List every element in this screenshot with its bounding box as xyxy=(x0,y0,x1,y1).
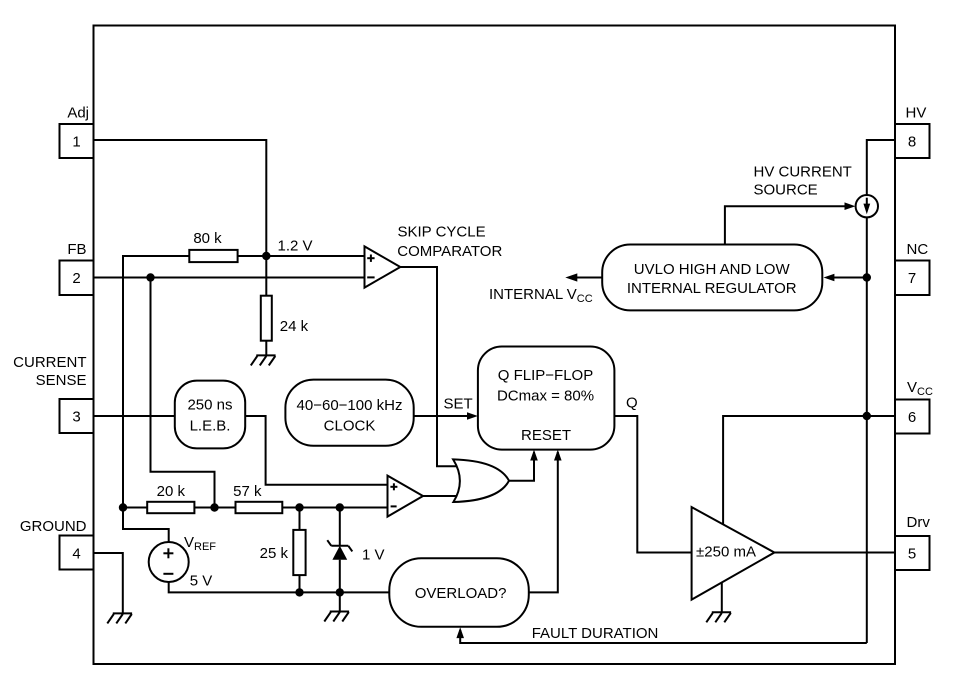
op-amp U2 current sense comparator xyxy=(388,476,424,517)
svg-text:RESET: RESET xyxy=(521,427,571,444)
wire UVLO output INTERNAL VCC arrow xyxy=(489,273,602,305)
resistor R5 25 k xyxy=(260,508,306,593)
wire Q output to driver input xyxy=(614,394,691,552)
svg-text:Adj: Adj xyxy=(67,105,89,122)
svg-text:57 k: 57 k xyxy=(233,483,262,500)
wire SET arrow clock to flip-flop xyxy=(414,396,478,420)
node C junction xyxy=(210,503,218,511)
block 40-60-100 kHz clock xyxy=(285,380,413,446)
ground below zener xyxy=(324,612,349,622)
wire pin 2 FB to skip comparator - input xyxy=(94,277,365,279)
svg-text:8: 8 xyxy=(908,133,916,150)
wire LEB output to comparator U2 + input xyxy=(245,416,387,485)
resistor R3 20 k xyxy=(147,483,194,513)
svg-text:25 k: 25 k xyxy=(260,545,289,562)
svg-text:1 V: 1 V xyxy=(362,546,385,563)
pin 2 FB xyxy=(60,241,94,295)
wire driver output to pin 5 Drv xyxy=(774,552,895,554)
resistor R4 57 k xyxy=(233,483,282,513)
svg-text:CLOCK: CLOCK xyxy=(324,418,376,435)
svg-text:INTERNAL REGULATOR: INTERNAL REGULATOR xyxy=(627,280,797,297)
svg-text:SET: SET xyxy=(444,396,473,413)
ground below 24k xyxy=(251,355,276,365)
svg-text:SOURCE: SOURCE xyxy=(754,182,818,199)
pin 3 CURRENT SENSE xyxy=(13,354,93,433)
svg-text:L.E.B.: L.E.B. xyxy=(190,418,231,435)
svg-text:Q FLIP−FLOP: Q FLIP−FLOP xyxy=(498,367,593,384)
wire UVLO top to current source arrow xyxy=(725,202,856,244)
svg-text:FB: FB xyxy=(67,241,86,258)
zener diode D1 1 V xyxy=(327,508,384,612)
IC outer border xyxy=(94,26,896,665)
wire rail to UVLO input arrow xyxy=(824,274,867,282)
wire pin 6 VCC to driver top xyxy=(723,416,895,525)
svg-text:250 ns: 250 ns xyxy=(187,397,232,414)
svg-text:2: 2 xyxy=(72,270,80,287)
svg-text:20 k: 20 k xyxy=(157,483,186,500)
pin 7 NC xyxy=(895,241,930,295)
wire pin 4 to ground xyxy=(94,553,123,613)
svg-text:40−60−100 kHz: 40−60−100 kHz xyxy=(297,397,403,414)
svg-text:NC: NC xyxy=(907,241,929,258)
node E junction zener top xyxy=(336,503,344,511)
svg-text:Q: Q xyxy=(626,394,638,411)
node A junction xyxy=(262,252,270,260)
OR gate U4 xyxy=(453,459,509,502)
wire U2 output to OR gate input xyxy=(423,495,457,497)
driver amplifier U6 ±250 mA xyxy=(692,507,775,599)
wire pin 3 to LEB block xyxy=(94,415,175,417)
svg-text:24 k: 24 k xyxy=(280,318,309,335)
node F junction 25k bottom xyxy=(295,588,303,596)
wire 57k to comparator U2 - input xyxy=(282,507,387,509)
svg-text:HV: HV xyxy=(906,105,927,122)
svg-text:5 V: 5 V xyxy=(190,572,213,589)
wire node A to skip comparator + input xyxy=(238,255,365,257)
svg-text:80 k: 80 k xyxy=(193,230,222,247)
block U5 UVLO internal regulator xyxy=(602,245,822,311)
resistor R1 80 k xyxy=(189,230,237,262)
svg-text:OVERLOAD?: OVERLOAD? xyxy=(415,585,507,602)
wire node B to 20k xyxy=(123,507,147,509)
node D junction 25k top xyxy=(295,503,303,511)
node H junction rail UVLO xyxy=(863,273,871,281)
svg-text:DCmax = 80%: DCmax = 80% xyxy=(497,387,594,404)
wire driver ground stem xyxy=(721,583,723,613)
block OVERLOAD? xyxy=(389,558,529,627)
block 250 ns L.E.B. xyxy=(175,381,245,449)
wire 80k left lead down to divider node B xyxy=(123,256,189,508)
pin 6 VCC xyxy=(895,379,933,434)
svg-text:GROUND: GROUND xyxy=(20,518,87,535)
svg-text:1: 1 xyxy=(72,133,80,150)
svg-text:FAULT DURATION: FAULT DURATION xyxy=(532,625,659,642)
node G junction zener bottom xyxy=(336,588,344,596)
pin 1 Adj xyxy=(60,105,94,158)
svg-text:7: 7 xyxy=(908,270,916,287)
current source I1 HV CURRENT SOURCE xyxy=(754,163,879,217)
wire pin 1 to node A and down to 24k xyxy=(94,140,267,296)
svg-text:SENSE: SENSE xyxy=(36,372,87,389)
pin 8 HV xyxy=(895,105,930,158)
wire HV rail down right side xyxy=(866,217,868,643)
wire U1 output down to OR gate input xyxy=(400,267,456,466)
wire pin 8 HV to current source xyxy=(867,140,895,195)
svg-text:3: 3 xyxy=(72,408,80,425)
node B junction xyxy=(119,503,127,511)
wire node B down to VREF source xyxy=(123,508,169,543)
wire OVERLOAD output up to RESET arrow xyxy=(529,450,562,593)
svg-text:5: 5 xyxy=(908,545,916,562)
pin 5 Drv xyxy=(895,514,930,570)
wire 20k to 57k xyxy=(194,507,235,509)
resistor R2 24 k xyxy=(261,296,309,341)
ground pin 4 xyxy=(107,613,132,623)
node FB junction xyxy=(146,273,154,281)
svg-text:6: 6 xyxy=(908,409,916,426)
svg-text:1.2 V: 1.2 V xyxy=(278,237,313,254)
svg-text:COMPARATOR: COMPARATOR xyxy=(397,243,502,260)
svg-text:Drv: Drv xyxy=(907,514,931,531)
svg-text:HV CURRENT: HV CURRENT xyxy=(754,163,852,180)
node I junction rail VCC xyxy=(863,412,871,420)
wire 24k bottom lead xyxy=(265,341,267,356)
voltage source VREF 5 V xyxy=(149,534,217,589)
ground below driver xyxy=(706,612,731,622)
wire OR output up to RESET arrow xyxy=(509,450,538,481)
pin 4 GROUND xyxy=(20,518,94,570)
op-amp U1 skip cycle comparator xyxy=(365,224,503,288)
flip-flop U3 Q FLIP-FLOP xyxy=(478,347,615,450)
wire fault duration line to OVERLOAD arrow xyxy=(456,625,866,643)
svg-text:4: 4 xyxy=(72,545,80,562)
svg-text:SKIP CYCLE: SKIP CYCLE xyxy=(398,224,486,241)
svg-text:±250 mA: ±250 mA xyxy=(696,544,756,561)
wire VREF bottom rail to OVERLOAD block xyxy=(169,582,390,592)
svg-text:UVLO HIGH AND LOW: UVLO HIGH AND LOW xyxy=(634,261,791,278)
svg-text:CURRENT: CURRENT xyxy=(13,354,86,371)
wire FB branch down to divider mid node C xyxy=(151,278,215,508)
